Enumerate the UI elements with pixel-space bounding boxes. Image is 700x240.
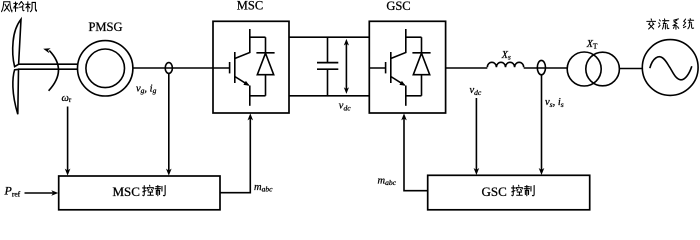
wire m_abc from MSC control up to MSC converter xyxy=(220,118,250,193)
IGBT Q2 in GSC: gate wire xyxy=(369,67,385,69)
svg-text:mabc: mabc xyxy=(254,182,273,194)
wind turbine lower blade xyxy=(13,69,19,114)
transformer XT circle 2 xyxy=(586,52,620,86)
svg-text:GSC: GSC xyxy=(482,184,507,199)
converter GSC box xyxy=(369,21,445,113)
arrow P_ref into MSC control xyxy=(25,192,54,194)
inductor Xs xyxy=(487,62,523,67)
converter MSC box xyxy=(213,21,289,113)
svg-text:XT: XT xyxy=(586,39,598,51)
IGBT Q2 gate bar xyxy=(385,62,387,73)
capacitor C plates xyxy=(317,63,338,70)
svg-text:MSC: MSC xyxy=(237,0,263,12)
svg-text:ωr: ωr xyxy=(62,93,72,104)
svg-text:mabc: mabc xyxy=(378,175,397,187)
diode D1 bottom lead xyxy=(265,75,267,96)
IGBT Q1 gate bar xyxy=(229,62,231,73)
vdc measuring arrow xyxy=(345,44,347,90)
DC bus bottom wire xyxy=(289,95,369,97)
IGBT Q1 in MSC: gate wire xyxy=(213,67,230,69)
IGBT Q2 body bar xyxy=(390,52,392,83)
generator PMSG outer circle xyxy=(78,41,133,96)
wire m_abc from GSC control up to GSC converter xyxy=(404,118,428,191)
MSC leg top rail xyxy=(250,36,266,38)
diode D2 bottom lead xyxy=(421,75,423,96)
wire GSC to inductor xyxy=(446,67,488,69)
svg-text:Xs: Xs xyxy=(501,50,511,62)
capacitor C leads xyxy=(327,37,329,96)
AC source sine wave xyxy=(650,57,692,80)
IGBT Q2 collector xyxy=(391,29,406,59)
rotation arrow xyxy=(49,51,59,91)
svg-text:vdc: vdc xyxy=(470,85,482,97)
wire omega_r feedback down to MSC control xyxy=(67,107,69,172)
svg-text:Pref: Pref xyxy=(4,183,21,198)
svg-text:vdc: vdc xyxy=(339,101,351,113)
IGBT Q1 collector xyxy=(235,29,250,59)
wire vdc feedback down to GSC control xyxy=(475,98,477,171)
IGBT Q1 emitter with arrow xyxy=(235,77,249,86)
AC system source circle xyxy=(642,40,698,96)
transformer XT circle 1 xyxy=(567,52,601,86)
wind turbine upper blade xyxy=(13,19,21,66)
diode D1 cathode bar xyxy=(256,52,274,54)
control box MSC xyxy=(59,176,220,210)
wire transformer to AC source xyxy=(619,68,642,70)
node vs/is xyxy=(537,60,545,74)
control box GSC xyxy=(428,175,590,210)
svg-text:GSC: GSC xyxy=(386,0,410,13)
diode D2 top lead xyxy=(421,37,423,53)
label 交流系统 (AC system) xyxy=(647,19,694,30)
diode D2 triangle xyxy=(413,53,429,74)
MSC leg bottom rail xyxy=(250,95,266,97)
wire PMSG to MSC xyxy=(133,67,213,69)
diode D1 top lead xyxy=(265,37,267,53)
label 风轮机 (wind turbine) xyxy=(2,2,37,12)
IGBT Q2 emitter stub xyxy=(405,86,407,106)
diode D1 triangle xyxy=(257,53,273,74)
GSC leg bottom rail xyxy=(406,95,422,97)
IGBT Q2 emitter with arrow xyxy=(391,77,405,86)
generator PMSG inner circle xyxy=(86,49,125,88)
wire inductor to node xyxy=(524,67,568,69)
node vg/ig xyxy=(165,63,172,74)
DC bus top wire xyxy=(289,36,369,38)
IGBT Q1 body bar xyxy=(234,52,236,83)
svg-text:PMSG: PMSG xyxy=(88,20,122,34)
IGBT Q1 emitter stub xyxy=(249,86,251,106)
svg-text:vs, is: vs, is xyxy=(545,97,564,109)
shaft xyxy=(18,64,78,69)
diode D2 cathode bar xyxy=(412,52,430,54)
wire vg/ig feedback down to MSC control xyxy=(168,73,170,171)
wire vs/is feedback down to GSC control xyxy=(541,76,543,171)
svg-text:vg, ig: vg, ig xyxy=(136,83,157,95)
GSC leg top rail xyxy=(406,36,422,38)
svg-text:MSC: MSC xyxy=(113,184,140,199)
